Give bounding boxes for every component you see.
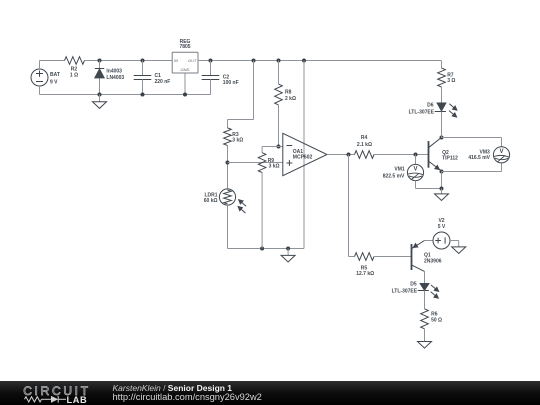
resistor R7 3 ohm [438, 61, 456, 103]
voltage regulator REG 7805 [172, 39, 198, 73]
svg-text:LTL-307EE: LTL-307EE [409, 110, 435, 116]
wire non-inverting input [228, 162, 283, 164]
ground symbol V2 [452, 247, 466, 254]
svg-text:416.5 mV: 416.5 mV [468, 155, 490, 161]
junction dot R3 branch [252, 59, 256, 63]
wire top rail battery to R2 [40, 60, 65, 62]
svg-text:60 kΩ: 60 kΩ [204, 198, 218, 204]
transistor Q2 TIP112 [429, 137, 459, 171]
junction dot divider node [226, 161, 230, 165]
voltage source BAT 9V (battery) [31, 69, 60, 86]
junction dot inverting node [277, 145, 281, 149]
ground symbol Q2 emitter [441, 189, 443, 194]
svg-text:2 kΩ: 2 kΩ [285, 96, 296, 102]
svg-text:R8: R8 [285, 90, 292, 96]
svg-text:BAT: BAT [50, 72, 60, 78]
junction dot ground tap [286, 247, 290, 251]
svg-text:LN4003: LN4003 [106, 75, 124, 81]
junction dot REG GND bottom [183, 93, 187, 97]
wire R5 to Q1 base [374, 256, 412, 258]
diode In4003 LN4003 [95, 61, 125, 95]
svg-text:3 kΩ: 3 kΩ [232, 138, 243, 144]
junction dot emitter ground node [440, 187, 444, 191]
voltmeter VM3 416.5 mV [468, 147, 509, 163]
capacitor C1 220 nF [134, 61, 171, 95]
junction dot C1 top [141, 59, 145, 63]
CircuitLab logo resistor-diode doodle [25, 397, 42, 402]
wire emitter to VM3 bottom [442, 171, 502, 173]
junction dot Q2 collector node [440, 136, 444, 140]
wire inverting input [262, 146, 283, 148]
junction dot diode top [98, 59, 102, 63]
svg-text:7805: 7805 [179, 44, 190, 50]
svg-text:In4003: In4003 [106, 68, 122, 74]
junction dot diode bottom [98, 93, 102, 97]
svg-text:822.5 mV: 822.5 mV [383, 173, 405, 179]
op-amp OA1 MCP602 [283, 133, 327, 175]
svg-text:LTL-307EE: LTL-307EE [392, 288, 418, 294]
svg-text:LAB: LAB [67, 395, 88, 405]
svg-text:V: V [413, 167, 417, 173]
footer bar background [0, 381, 540, 405]
voltmeter VM1 822.5 mV [383, 164, 424, 180]
wire VM1 bottom [415, 181, 417, 189]
svg-text:IN: IN [174, 58, 178, 63]
resistor R6 50 ohm [421, 291, 442, 342]
wire R3 to LDR1 [227, 146, 229, 189]
svg-text:5 V: 5 V [438, 224, 446, 230]
resistor R8 2 kohm [275, 61, 296, 147]
svg-text:1 Ω: 1 Ω [70, 73, 78, 79]
wire collector to VM3 top [442, 137, 502, 139]
wire emitter down [441, 172, 443, 189]
wire LDR1 to ground node [227, 205, 229, 248]
svg-text:50 Ω: 50 Ω [431, 317, 442, 323]
junction dot C1 bottom [141, 93, 145, 97]
junction dot C2 top [209, 59, 213, 63]
resistor R9 3 kohm [258, 147, 279, 249]
wire top rail R2 to REG IN [85, 60, 173, 62]
junction dot R9 bottom [260, 247, 264, 251]
svg-text:3 kΩ: 3 kΩ [269, 164, 280, 170]
svg-text:Q1: Q1 [424, 252, 431, 258]
svg-text:V: V [499, 149, 503, 155]
ground symbol op-amp [287, 249, 289, 256]
wire V2 to ground [450, 240, 459, 242]
svg-text:12.7 kΩ: 12.7 kΩ [356, 271, 374, 277]
junction dot op-amp V+ supply [302, 59, 306, 63]
svg-text:3 Ω: 3 Ω [447, 78, 455, 84]
wire D6 to Q2 collector [441, 112, 443, 138]
resistor R3 3 kohm [224, 128, 244, 146]
svg-text:9 V: 9 V [50, 79, 58, 85]
wire battery bottom [39, 86, 41, 95]
svg-text:VM1: VM1 [394, 167, 405, 173]
wire output branch down to R5 [348, 155, 350, 257]
svg-text:TIP112: TIP112 [442, 155, 458, 161]
svg-text:R4: R4 [361, 135, 368, 141]
svg-text:220 nF: 220 nF [155, 79, 171, 85]
svg-text:D6: D6 [427, 103, 434, 109]
wire VM1 top [415, 155, 417, 165]
resistor R4 2.1 kohm [355, 135, 375, 158]
LED D6 LTL-307EE [409, 103, 457, 117]
svg-text:MCP602: MCP602 [293, 155, 313, 161]
wire op-amp output [327, 154, 355, 156]
LED D5 LTL-307EE [392, 282, 439, 299]
wire R4 to Q2 base [374, 154, 429, 156]
wire Q1 collector to D5 [424, 271, 426, 283]
junction dot output branch [347, 153, 351, 157]
resistor R2 1 ohm [65, 57, 85, 79]
capacitor C2 100 nF [202, 61, 239, 95]
voltage source V2 5V [433, 218, 450, 249]
wire top rail REG OUT to R7 corner [198, 60, 442, 62]
wire R3 branch from rail [253, 61, 255, 120]
junction dot VM1 tap [414, 153, 418, 157]
photoresistor LDR1 60 kohm [204, 189, 246, 213]
svg-text:http://circuitlab.com/cnsgny26: http://circuitlab.com/cnsgny26v92w2 [113, 392, 262, 402]
wire ground rail [40, 94, 211, 96]
wire REG GND pin [184, 73, 186, 95]
svg-text:2.1 kΩ: 2.1 kΩ [357, 142, 372, 148]
svg-text:GND: GND [181, 67, 190, 72]
resistor R5 12.7 kohm [355, 253, 375, 277]
junction dot R8 top [277, 59, 281, 63]
svg-text:OUT: OUT [188, 58, 197, 63]
svg-text:100 nF: 100 nF [223, 80, 239, 86]
svg-text:D5: D5 [410, 282, 417, 288]
wire op-amp supply rails [303, 61, 305, 249]
wire Q1 emitter to V2 [425, 240, 433, 242]
ground symbol R6 [418, 342, 432, 349]
wire battery top [39, 61, 41, 70]
ground symbol main [99, 95, 101, 102]
svg-text:2N3906: 2N3906 [424, 259, 442, 265]
transistor Q1 2N3906 [412, 241, 442, 272]
junction dot Q2 emitter node [440, 170, 444, 174]
